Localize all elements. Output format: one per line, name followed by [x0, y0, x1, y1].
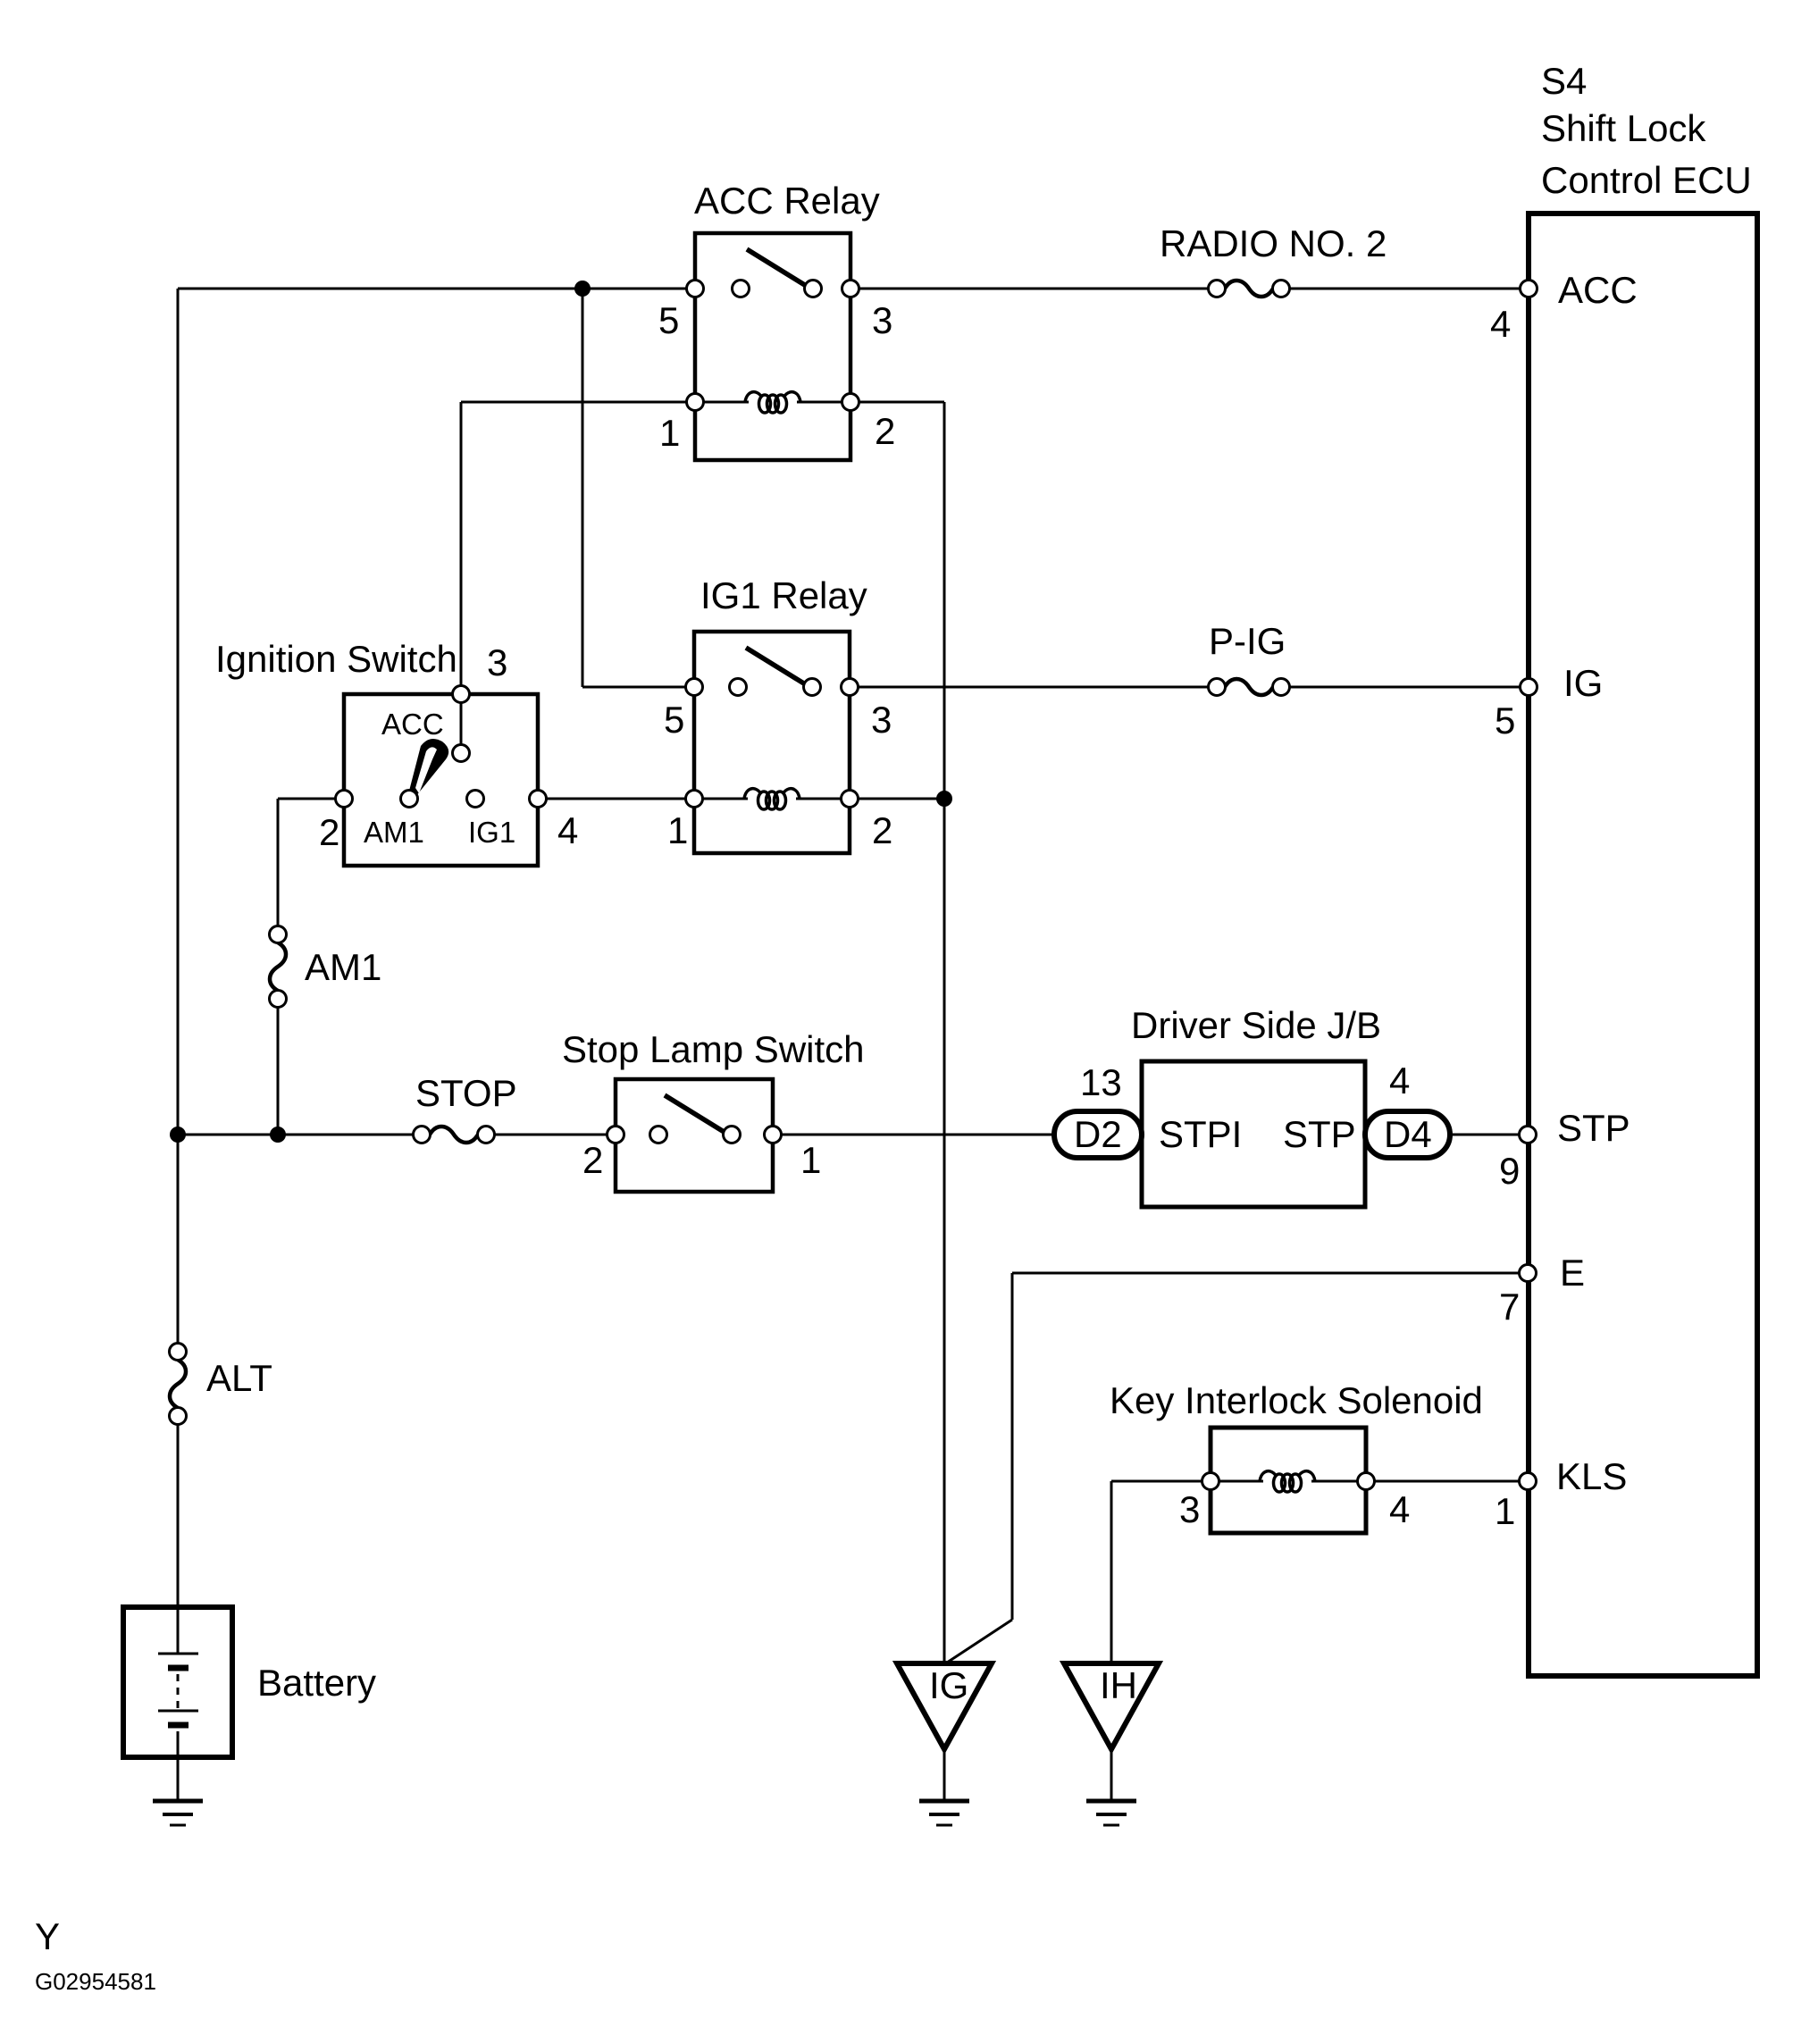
svg-text:5: 5: [664, 699, 684, 741]
svg-text:1: 1: [659, 412, 680, 454]
svg-text:Y: Y: [35, 1915, 60, 1957]
svg-text:1: 1: [667, 809, 688, 851]
svg-text:IG1: IG1: [468, 816, 515, 849]
svg-text:5: 5: [1495, 699, 1515, 741]
svg-text:P-IG: P-IG: [1209, 620, 1286, 662]
svg-text:Key Interlock Solenoid: Key Interlock Solenoid: [1110, 1379, 1483, 1421]
svg-text:4: 4: [1490, 303, 1511, 345]
svg-text:5: 5: [658, 299, 679, 341]
svg-text:S4: S4: [1541, 60, 1587, 102]
svg-text:AM1: AM1: [364, 816, 424, 849]
svg-text:Battery: Battery: [257, 1662, 376, 1704]
svg-text:3: 3: [871, 699, 892, 741]
svg-text:AM1: AM1: [305, 946, 381, 988]
svg-text:Control ECU: Control ECU: [1541, 159, 1752, 201]
svg-text:3: 3: [872, 299, 892, 341]
svg-text:STP: STP: [1557, 1107, 1630, 1149]
svg-text:Driver Side J/B: Driver Side J/B: [1131, 1004, 1381, 1046]
svg-text:Stop Lamp Switch: Stop Lamp Switch: [562, 1028, 865, 1070]
svg-text:Ignition Switch: Ignition Switch: [215, 638, 457, 680]
svg-text:IH: IH: [1100, 1664, 1137, 1706]
svg-text:IG: IG: [1563, 662, 1603, 704]
svg-text:3: 3: [1179, 1488, 1200, 1530]
svg-text:STP: STP: [1283, 1113, 1356, 1155]
svg-text:D4: D4: [1384, 1113, 1432, 1155]
svg-text:ACC: ACC: [1558, 269, 1638, 311]
svg-text:ALT: ALT: [206, 1357, 272, 1399]
svg-text:2: 2: [582, 1139, 603, 1181]
svg-text:STOP: STOP: [415, 1072, 517, 1114]
svg-text:E: E: [1560, 1252, 1585, 1294]
svg-text:4: 4: [557, 809, 578, 851]
svg-text:9: 9: [1499, 1150, 1520, 1192]
svg-text:3: 3: [487, 641, 507, 683]
svg-text:KLS: KLS: [1556, 1455, 1627, 1497]
svg-text:G02954581: G02954581: [35, 1968, 156, 1995]
svg-text:2: 2: [872, 809, 892, 851]
svg-text:STPI: STPI: [1159, 1113, 1242, 1155]
svg-text:4: 4: [1389, 1488, 1410, 1530]
svg-text:ACC Relay: ACC Relay: [694, 180, 880, 222]
svg-text:IG: IG: [929, 1664, 968, 1706]
svg-text:ACC: ACC: [381, 708, 444, 741]
svg-text:1: 1: [800, 1139, 821, 1181]
svg-text:IG1 Relay: IG1 Relay: [700, 574, 867, 616]
svg-text:4: 4: [1389, 1060, 1410, 1102]
svg-text:Shift Lock: Shift Lock: [1541, 107, 1706, 149]
svg-text:1: 1: [1495, 1490, 1515, 1532]
svg-text:D2: D2: [1074, 1113, 1122, 1155]
svg-text:13: 13: [1080, 1061, 1122, 1103]
svg-text:2: 2: [875, 410, 895, 452]
svg-text:7: 7: [1499, 1286, 1520, 1328]
svg-text:RADIO NO. 2: RADIO NO. 2: [1160, 222, 1387, 264]
svg-text:2: 2: [319, 811, 339, 853]
